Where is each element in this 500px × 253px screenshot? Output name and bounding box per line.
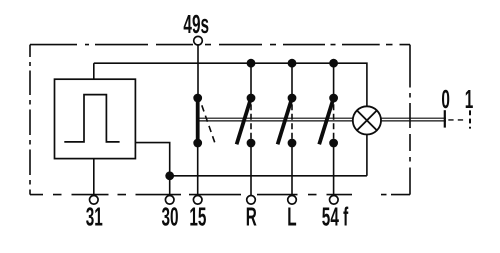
wire rail drop to S2 <box>250 63 252 98</box>
terminal 15 circle <box>193 196 202 205</box>
wire box top to rail <box>93 63 95 79</box>
relay enclosure dash-dot border top <box>30 44 410 46</box>
relay enclosure dash-dot border left <box>29 45 31 195</box>
node S4 top contact <box>329 94 338 103</box>
mechanical linkage bar lower line right part <box>381 120 446 122</box>
wire bottom rail lamp return <box>170 175 367 177</box>
node S4 bottom contact <box>329 139 338 148</box>
knob position 1 tick dashed <box>469 110 471 128</box>
wire rail drop to S4 <box>333 63 335 98</box>
node rail-S3 junction <box>288 59 297 68</box>
relay enclosure dash-dot border bottom <box>30 194 410 196</box>
label 15 <box>189 202 206 231</box>
mechanical linkage bar lower line left part <box>198 120 353 122</box>
label 0 <box>441 85 450 114</box>
terminal 30 circle <box>165 196 174 205</box>
svg-text:31: 31 <box>86 202 103 231</box>
knob position 0 tick solid <box>444 110 446 127</box>
svg-text:L: L <box>287 202 296 231</box>
switch S1 alternate position dashed <box>202 105 215 143</box>
node rail-S4 junction <box>329 59 338 68</box>
switch S1 lever closed <box>196 98 200 143</box>
mechanical linkage bar upper line left part <box>198 117 353 119</box>
wire rail drop to S3 <box>291 63 293 98</box>
label 49s <box>183 10 209 39</box>
terminal R circle <box>247 196 256 205</box>
svg-text:15: 15 <box>189 202 206 231</box>
mechanical linkage bar upper line right part <box>381 117 446 119</box>
wire S4 bottom to terminal 54f <box>333 143 335 195</box>
label 54f <box>322 202 349 231</box>
wire S1 bottom to terminal 15 <box>197 143 199 195</box>
label R <box>246 202 257 231</box>
node S1 top contact <box>193 94 202 103</box>
wire S3 bottom to terminal L <box>291 143 293 195</box>
svg-text:54 f: 54 f <box>322 202 349 231</box>
switch S3 alternate position dashed <box>291 104 293 139</box>
wire box bottom to terminal 31 <box>93 159 95 196</box>
terminal 49s circle <box>194 36 203 45</box>
label 31 <box>86 202 103 231</box>
node S3 top contact <box>288 94 297 103</box>
svg-text:49s: 49s <box>183 10 209 39</box>
label 30 <box>161 202 178 231</box>
node 30 junction <box>165 171 174 180</box>
terminal 54f circle <box>330 196 339 205</box>
svg-text:30: 30 <box>161 202 178 231</box>
wire terminal 49s to switch S1 <box>197 45 199 98</box>
wire box right side to node 30 <box>135 143 169 196</box>
label 1 <box>465 85 474 114</box>
node S3 bottom contact <box>288 139 297 148</box>
switch S4 lever open <box>319 98 333 144</box>
switch S4 alternate position dashed <box>333 104 335 139</box>
wire S2 bottom to terminal R <box>250 143 252 195</box>
node S2 top contact <box>247 94 256 103</box>
switch S3 lever open <box>278 98 292 144</box>
svg-text:R: R <box>246 202 257 231</box>
pulse waveform symbol <box>64 95 119 142</box>
knob travel dashed line <box>448 119 466 121</box>
switch S2 alternate position dashed <box>250 104 252 139</box>
wire top rail to lamp <box>94 63 367 106</box>
label L <box>287 202 296 231</box>
relay enclosure dash-dot border right <box>409 45 411 195</box>
node S1 bottom contact <box>193 139 202 148</box>
node rail-S2 junction <box>247 59 256 68</box>
switch S2 lever open <box>237 98 251 144</box>
terminal 31 circle <box>90 196 99 205</box>
flasher unit box U1 <box>55 79 136 158</box>
svg-text:0: 0 <box>441 85 450 114</box>
pilot lamp H1 <box>353 106 381 134</box>
svg-text:1: 1 <box>465 85 474 114</box>
node S2 bottom contact <box>247 139 256 148</box>
wire lamp bottom <box>366 135 368 176</box>
terminal L circle <box>288 196 297 205</box>
